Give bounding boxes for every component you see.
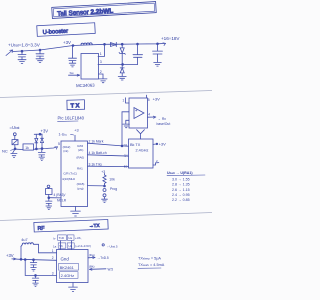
wire pin2 to ground xyxy=(99,74,104,78)
wire to MCLR pin xyxy=(49,197,61,199)
svg-text:Vb: Vb xyxy=(59,244,63,248)
svg-text:4u7: 4u7 xyxy=(21,238,27,242)
diode D3 xyxy=(41,134,43,138)
inductor L1 xyxy=(81,43,92,45)
ground xyxy=(36,59,44,63)
capacitor C9 xyxy=(48,198,50,201)
svg-text:→TxD.5: →TxD.5 xyxy=(97,256,109,260)
wire FB line xyxy=(98,64,138,66)
resistor R2 10k xyxy=(103,173,106,186)
wire row2 Batt-ch xyxy=(88,155,129,156)
svg-text:3.0 → 1.55: 3.0 → 1.55 xyxy=(172,177,190,181)
diode D4 lower xyxy=(121,65,123,68)
svg-text:4: 4 xyxy=(148,113,150,117)
node C1 xyxy=(20,258,22,260)
wire branch down xyxy=(24,260,26,276)
svg-text:5: 5 xyxy=(148,98,150,102)
ground xyxy=(39,157,45,160)
svg-text:3 1k Trig: 3 1k Trig xyxy=(89,162,102,166)
svg-text:TxD: TxD xyxy=(59,236,65,240)
svg-text:+3V: +3V xyxy=(41,129,49,134)
IC U1 boost converter xyxy=(81,54,99,80)
title box "Tail Sensor 2.2bWL" xyxy=(52,2,156,19)
top pin labels row B xyxy=(53,244,118,248)
reed switch S1 xyxy=(12,140,18,145)
svg-text:4 1k Batt-ch: 4 1k Batt-ch xyxy=(89,151,107,155)
svg-text:Ua: Ua xyxy=(68,244,72,248)
svg-text:Pic 16LF1840: Pic 16LF1840 xyxy=(58,116,85,121)
zener ZD1 xyxy=(121,44,123,47)
node A1 xyxy=(21,50,23,52)
+3V pin xyxy=(153,143,156,145)
ground xyxy=(12,156,16,158)
svg-text:Bk TX: Bk TX xyxy=(130,143,141,147)
input arrow xyxy=(6,50,13,56)
svg-text:1k: 1k xyxy=(25,146,29,150)
svg-text:1: 1 xyxy=(122,98,124,102)
pin 5 +3V xyxy=(146,95,148,98)
node B5 xyxy=(121,145,123,147)
svg-text:2.4GHz: 2.4GHz xyxy=(136,149,149,153)
output arrow xyxy=(163,43,166,46)
wire xyxy=(14,145,16,149)
svg-text:2 1k Mark: 2 1k Mark xyxy=(89,140,104,144)
capacitor C10 xyxy=(33,260,35,262)
svg-text:Q4: Q4 xyxy=(124,153,128,157)
svg-text:+16÷18V: +16÷18V xyxy=(161,36,180,41)
svg-text:5: 5 xyxy=(58,142,60,146)
svg-text:2: 2 xyxy=(52,256,54,260)
ground xyxy=(154,63,162,67)
ground xyxy=(99,79,107,83)
svg-text:W.5: W.5 xyxy=(108,268,114,272)
svg-text:b-: b- xyxy=(54,236,57,240)
pin 3 wire to ground xyxy=(126,120,129,123)
svg-text:(RA5): (RA5) xyxy=(77,182,85,186)
terminal circle xyxy=(13,133,16,136)
wire pin1 drop xyxy=(98,44,105,56)
svg-text:2.8 → 1.35: 2.8 → 1.35 xyxy=(172,183,190,187)
input arrow xyxy=(12,258,21,260)
MCLR terminal circle xyxy=(47,185,50,188)
pin 2 hook xyxy=(153,163,159,165)
op-amp U3 box xyxy=(129,98,148,128)
svg-text:base/Out: base/Out xyxy=(157,122,171,126)
capacitor C11 xyxy=(35,275,37,277)
node C4 xyxy=(35,275,37,277)
IC U5 BK2461 xyxy=(57,250,89,283)
top pin wires xyxy=(61,241,72,250)
capacitor C1 xyxy=(21,51,23,54)
diode D1 xyxy=(111,42,117,46)
section label box "RF -> TX" xyxy=(34,220,108,233)
RF module U4 xyxy=(129,139,154,168)
antenna xyxy=(137,130,145,139)
svg-text:2.6 → 1.15: 2.6 → 1.15 xyxy=(172,188,190,192)
node B3 xyxy=(36,148,38,150)
svg-text:TXsleep = 5μA: TXsleep = 5μA xyxy=(138,257,161,261)
wire: main supply rail xyxy=(13,43,166,51)
separator line 1 xyxy=(0,91,212,98)
svg-text:1: 1 xyxy=(100,52,102,56)
node B6 xyxy=(104,185,106,187)
ground xyxy=(46,206,52,209)
capacitor C2 xyxy=(39,50,41,53)
svg-text:NC: NC xyxy=(2,148,8,153)
node B4 xyxy=(41,148,43,150)
svg-text:+3V: +3V xyxy=(153,97,161,102)
node B7 xyxy=(48,197,50,199)
IC ground pin xyxy=(72,283,74,287)
svg-text:+3: +3 xyxy=(74,129,78,133)
svg-text:RA1: RA1 xyxy=(77,166,83,170)
separator line 2 xyxy=(0,213,212,221)
svg-text:RF: RF xyxy=(37,226,44,232)
svg-text:4 (RA3)/: 4 (RA3)/ xyxy=(54,193,66,197)
pin 4 output arrow xyxy=(148,116,156,118)
capacitor C7 xyxy=(13,149,15,153)
svg-text:3: 3 xyxy=(52,271,54,275)
svg-text:TXwork = 4.5mA: TXwork = 4.5mA xyxy=(138,263,165,267)
wire +input down to row1 xyxy=(122,112,129,146)
wire xyxy=(16,148,23,150)
svg-text:B2: B2 xyxy=(124,165,128,169)
node A6 xyxy=(137,43,139,45)
wire row1 Mark xyxy=(88,143,129,146)
svg-text:D1: D1 xyxy=(124,143,128,147)
pin 1 wire xyxy=(126,98,130,103)
svg-text:2.2 → 0.85: 2.2 → 0.85 xyxy=(172,198,190,202)
svg-text:1-Ucc: 1-Ucc xyxy=(59,132,68,136)
section label box "TX" xyxy=(67,100,85,110)
node FB xyxy=(122,64,124,66)
pin 1 wire xyxy=(74,135,76,141)
svg-text:+Ubat=1.8÷3.3V: +Ubat=1.8÷3.3V xyxy=(8,43,41,48)
svg-text:(Da): (Da) xyxy=(89,253,95,257)
svg-text:(int): (int) xyxy=(63,149,68,153)
wire sensor line xyxy=(34,147,58,150)
PIC inner labels xyxy=(62,144,84,190)
svg-text:+3V: +3V xyxy=(159,142,167,147)
node A3 xyxy=(72,45,74,47)
battery table xyxy=(167,171,193,202)
top pin labels row A xyxy=(54,236,82,241)
svg-text:2.4GHz: 2.4GHz xyxy=(61,273,75,278)
svg-text:→TX: →TX xyxy=(89,223,100,228)
svg-text:1: 1 xyxy=(52,249,54,253)
svg-text:Ubatt → U(RA1): Ubatt → U(RA1) xyxy=(167,171,193,175)
node B2 xyxy=(39,133,41,135)
wire row4 prog xyxy=(88,185,105,187)
svg-text:4(10)MHz: 4(10)MHz xyxy=(62,177,76,181)
prog jumper pads xyxy=(103,189,106,192)
svg-text:2: 2 xyxy=(156,159,158,163)
svg-text:(2b): (2b) xyxy=(78,148,83,152)
ground xyxy=(69,287,78,292)
svg-text:←Ubat.5: ←Ubat.5 xyxy=(107,245,118,249)
svg-text:→ Rx: → Rx xyxy=(158,117,167,121)
svg-text:C/R (TxC): C/R (TxC) xyxy=(63,172,77,176)
svg-text:Ua: Ua xyxy=(68,236,72,240)
wire main rail xyxy=(21,259,57,260)
svg-text:(RA0): (RA0) xyxy=(76,156,84,160)
svg-text:2.4 → 0.95: 2.4 → 0.95 xyxy=(172,193,190,197)
ground xyxy=(123,124,130,128)
ground xyxy=(31,268,37,271)
wire xyxy=(14,136,16,140)
node B1 xyxy=(14,148,16,150)
node C2 xyxy=(24,259,26,261)
wire inductor to pin1 xyxy=(34,244,57,253)
svg-text:Prog: Prog xyxy=(110,187,117,191)
node A4 xyxy=(104,43,106,45)
ground xyxy=(118,77,126,81)
ground xyxy=(69,63,76,67)
PIC ground pin xyxy=(75,207,77,211)
svg-text:+Ub,: +Ub, xyxy=(75,236,82,240)
ground xyxy=(71,211,81,216)
node A7 xyxy=(157,43,159,45)
wire lower branch xyxy=(25,274,56,276)
diode D2 xyxy=(35,134,37,138)
capacitor C5 xyxy=(157,44,159,51)
svg-text:2: 2 xyxy=(100,70,102,74)
svg-text:+3V: +3V xyxy=(63,40,71,45)
ground xyxy=(102,199,108,202)
svg-text:+3V: +3V xyxy=(6,253,14,258)
svg-text:MC34063: MC34063 xyxy=(76,83,95,89)
capacitor C4 xyxy=(137,44,139,54)
svg-text:1a: 1a xyxy=(53,245,57,249)
pin TxD out xyxy=(88,256,95,258)
ground xyxy=(18,60,26,64)
op-amp triangle xyxy=(134,108,144,119)
PIC U2 xyxy=(61,141,88,207)
wire IC left pin with arrow xyxy=(69,74,80,76)
svg-text:Gnd: Gnd xyxy=(61,256,70,261)
svg-text:TX: TX xyxy=(71,103,81,109)
node A5 xyxy=(121,43,123,45)
svg-text:(+2.2÷3.6V): (+2.2÷3.6V) xyxy=(75,244,91,248)
wire to inductor xyxy=(20,246,22,259)
node C3 xyxy=(33,259,35,261)
resistor R3 box xyxy=(48,187,50,190)
pin Bk in xyxy=(90,268,107,271)
section label box "U-booster" xyxy=(37,23,95,37)
wire row3 Trig xyxy=(88,165,129,167)
svg-text:(prg): (prg) xyxy=(77,186,83,190)
svg-text:=Ubat: =Ubat xyxy=(10,125,20,130)
node A2 xyxy=(39,49,41,51)
svg-text:Sw: Sw xyxy=(70,71,75,75)
svg-text:MCLR: MCLR xyxy=(57,198,67,202)
resistor R1 xyxy=(23,144,34,150)
svg-text:BK2461: BK2461 xyxy=(60,265,75,270)
ground xyxy=(33,283,39,286)
svg-text:3: 3 xyxy=(100,60,102,64)
capacitor C3 xyxy=(72,46,74,58)
svg-text:(Bk): (Bk) xyxy=(89,264,95,268)
svg-text:10k: 10k xyxy=(109,178,115,182)
capacitor C8 xyxy=(41,149,43,152)
